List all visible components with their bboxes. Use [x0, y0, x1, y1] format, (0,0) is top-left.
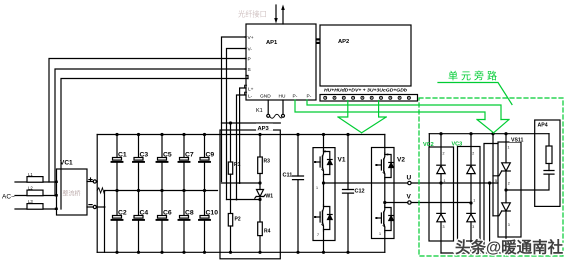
svg-text:AP4: AP4 [538, 123, 548, 129]
IGBT Q-bottom of V2 [375, 206, 393, 232]
svg-text:3: 3 [472, 225, 474, 229]
svg-text:C11: C11 [283, 173, 293, 179]
svg-text:3: 3 [508, 223, 510, 227]
DC positive-negative left bus [96, 135, 98, 253]
svg-text:V1: V1 [338, 157, 346, 164]
svg-text:1: 1 [444, 179, 446, 183]
snubber return wire [484, 144, 498, 254]
V2 internal chain [384, 135, 386, 253]
capacitor C7 [179, 133, 190, 192]
resistor P2 [228, 214, 232, 254]
svg-text:C5: C5 [163, 152, 172, 159]
fiber-optic down arrow [274, 5, 278, 24]
label minus [88, 204, 92, 206]
capacitor C11 [293, 133, 304, 254]
bypass gate wire [492, 134, 494, 216]
wire P phase sense [49, 59, 246, 183]
label AP3 [256, 124, 273, 133]
IGBT Q-top of V2 [375, 153, 393, 179]
fuse L1 [27, 177, 43, 183]
wire V+ sense from AP1 [222, 37, 247, 182]
svg-text:C10: C10 [206, 210, 219, 217]
svg-text:5: 5 [495, 179, 497, 183]
AC input wire phase 3 [15, 208, 57, 210]
terminal U [408, 181, 411, 184]
resistor R4 [258, 222, 263, 254]
wire S phase sense [55, 69, 246, 196]
rectifier bridge VC1 [57, 169, 88, 215]
svg-text:头条@暖通南社: 头条@暖通南社 [455, 238, 564, 257]
svg-text:1: 1 [379, 232, 381, 236]
relay leads K1 [267, 100, 269, 114]
svg-text:HU: HU [279, 94, 286, 100]
svg-text:C9: C9 [206, 152, 215, 159]
node tap R3-W1 [222, 182, 261, 184]
node tap W1-R4 [227, 199, 261, 201]
AP2 terminal strip [320, 95, 418, 102]
svg-text:VC3: VC3 [452, 142, 463, 148]
svg-text:1: 1 [473, 199, 475, 203]
wire V- sense from AP1 [227, 49, 247, 200]
svg-text:C12: C12 [355, 189, 365, 195]
svg-text:K1: K1 [256, 108, 263, 114]
zener W1 [255, 190, 265, 223]
label plus [88, 177, 92, 181]
svg-text:P-: P- [307, 94, 312, 100]
svg-text:C6: C6 [163, 210, 172, 217]
svg-text:L+: L+ [248, 87, 254, 93]
wire third phase sense [61, 79, 248, 210]
AC input wire phase 2 [15, 195, 57, 197]
DC bus top rail [97, 134, 385, 136]
svg-text:P: P [248, 57, 251, 63]
IGBT module V1 [313, 148, 335, 241]
inrush thermistor zigzag [97, 188, 105, 193]
svg-text:S: S [248, 67, 251, 73]
fuse L2 [27, 190, 43, 196]
thyristor bottom of VS11 [493, 203, 510, 237]
svg-text:GND: GND [260, 94, 271, 100]
svg-text:V2: V2 [397, 157, 405, 164]
svg-text:R1: R1 [234, 162, 241, 168]
IGBT Q-top of V1 [314, 150, 332, 176]
svg-text:P-: P- [293, 94, 298, 100]
thyristor top of VS11 [493, 134, 510, 203]
wire U to bypass [489, 183, 491, 253]
fiber-optic up arrow [281, 5, 285, 25]
thyristor module VS11 [498, 142, 521, 237]
snubber board AP3 [220, 130, 280, 259]
svg-text:C4: C4 [140, 210, 149, 217]
capacitor C2 [112, 191, 123, 254]
capacitor C9 [199, 133, 210, 192]
svg-text:2: 2 [443, 152, 445, 156]
load section top node rail [429, 133, 549, 135]
svg-text:3: 3 [443, 225, 445, 229]
svg-text:1: 1 [316, 186, 318, 190]
diode leg VC2 [429, 147, 454, 241]
VC1 minus terminal [87, 206, 93, 208]
svg-text:L2: L2 [28, 185, 33, 190]
svg-text:L3: L3 [28, 199, 33, 204]
svg-text:C8: C8 [185, 210, 194, 217]
svg-text:V: V [407, 194, 412, 201]
capacitor C of AP4 [506, 171, 554, 191]
svg-text:P2: P2 [235, 217, 241, 223]
resistor R of AP4 [546, 134, 552, 171]
AP1-AP2 bus connector [316, 38, 321, 44]
gate drive hollow arrow [338, 101, 386, 133]
capacitor C4 [133, 191, 144, 254]
svg-text:C2: C2 [118, 210, 127, 217]
svg-text:AP1: AP1 [266, 40, 278, 46]
DC bus bottom rail [97, 251, 385, 253]
AP1 pin ticks [245, 37, 248, 79]
svg-text:R3: R3 [264, 159, 271, 165]
svg-text:C3: C3 [140, 152, 149, 159]
wire L+ drop [240, 88, 246, 183]
svg-text:光纤接口: 光纤接口 [238, 10, 267, 19]
svg-text:3: 3 [387, 153, 389, 157]
fuse L3 [27, 204, 43, 210]
svg-text:2: 2 [472, 152, 474, 156]
midpoint feeder wire [104, 191, 106, 253]
capacitor C10 [199, 191, 210, 254]
capacitor C5 [157, 133, 168, 192]
svg-text:V+: V+ [248, 35, 254, 41]
resistor R3 [258, 133, 263, 190]
svg-text:单元旁路: 单元旁路 [448, 70, 500, 83]
output U wire [324, 182, 408, 184]
svg-text:AP2: AP2 [338, 39, 349, 45]
IGBT module V2 [372, 148, 395, 239]
terminal V [408, 201, 411, 204]
IGBT Q-bottom of V1 [314, 205, 332, 231]
load bottom wire [441, 237, 506, 253]
svg-text:C7: C7 [185, 152, 194, 159]
leader line of bypass label [438, 83, 512, 105]
svg-text:W1: W1 [266, 194, 274, 200]
svg-text:V-: V- [248, 47, 253, 53]
V1 internal chain [323, 135, 325, 253]
VC1 plus terminal [87, 181, 93, 183]
diode leg VC3 [458, 147, 481, 242]
svg-text:2: 2 [508, 182, 510, 186]
svg-text:2: 2 [324, 150, 326, 154]
bypass hollow arrow [477, 120, 509, 133]
capacitor C1 [112, 133, 123, 192]
wire L- drop [237, 95, 247, 200]
svg-text:VS11: VS11 [511, 138, 524, 144]
svg-text:C1: C1 [118, 152, 127, 159]
svg-text:AP3: AP3 [258, 126, 270, 132]
capacitor C6 [157, 191, 168, 254]
bypass dashed box [419, 98, 563, 256]
control board AP1 [246, 24, 316, 100]
svg-text:VC1: VC1 [60, 160, 73, 167]
svg-text:R4: R4 [264, 229, 271, 235]
controller board AP2 [320, 25, 411, 86]
green control wire A [295, 100, 485, 120]
capacitor middle rail [105, 190, 217, 192]
svg-text:7: 7 [317, 233, 319, 237]
svg-text:整流桥: 整流桥 [63, 190, 81, 198]
svg-text:AC~: AC~ [2, 194, 15, 201]
pin hooks L+ L- [245, 85, 247, 95]
DC bus capacitor C12 [343, 133, 354, 254]
svg-text:U: U [407, 175, 412, 182]
output V wire [385, 202, 408, 204]
svg-text:L1: L1 [28, 172, 33, 177]
svg-text:L-: L- [248, 94, 253, 100]
resistor R1 [228, 123, 232, 214]
svg-text:1: 1 [508, 146, 510, 150]
svg-text:HU+HUdD+DV+ + 3U+3UcGD+GDb: HU+HUdD+DV+ + 3U+3UcGD+GDb [324, 88, 407, 93]
capacitor C3 [133, 133, 144, 192]
label VS11 [510, 136, 533, 144]
AC input wire phase 1 [15, 181, 57, 183]
green control wire B [307, 100, 501, 120]
svg-text:VC2: VC2 [423, 142, 434, 148]
capacitor C8 [179, 191, 190, 254]
feed wire jog [222, 122, 281, 124]
snubber board AP4 [535, 120, 560, 206]
